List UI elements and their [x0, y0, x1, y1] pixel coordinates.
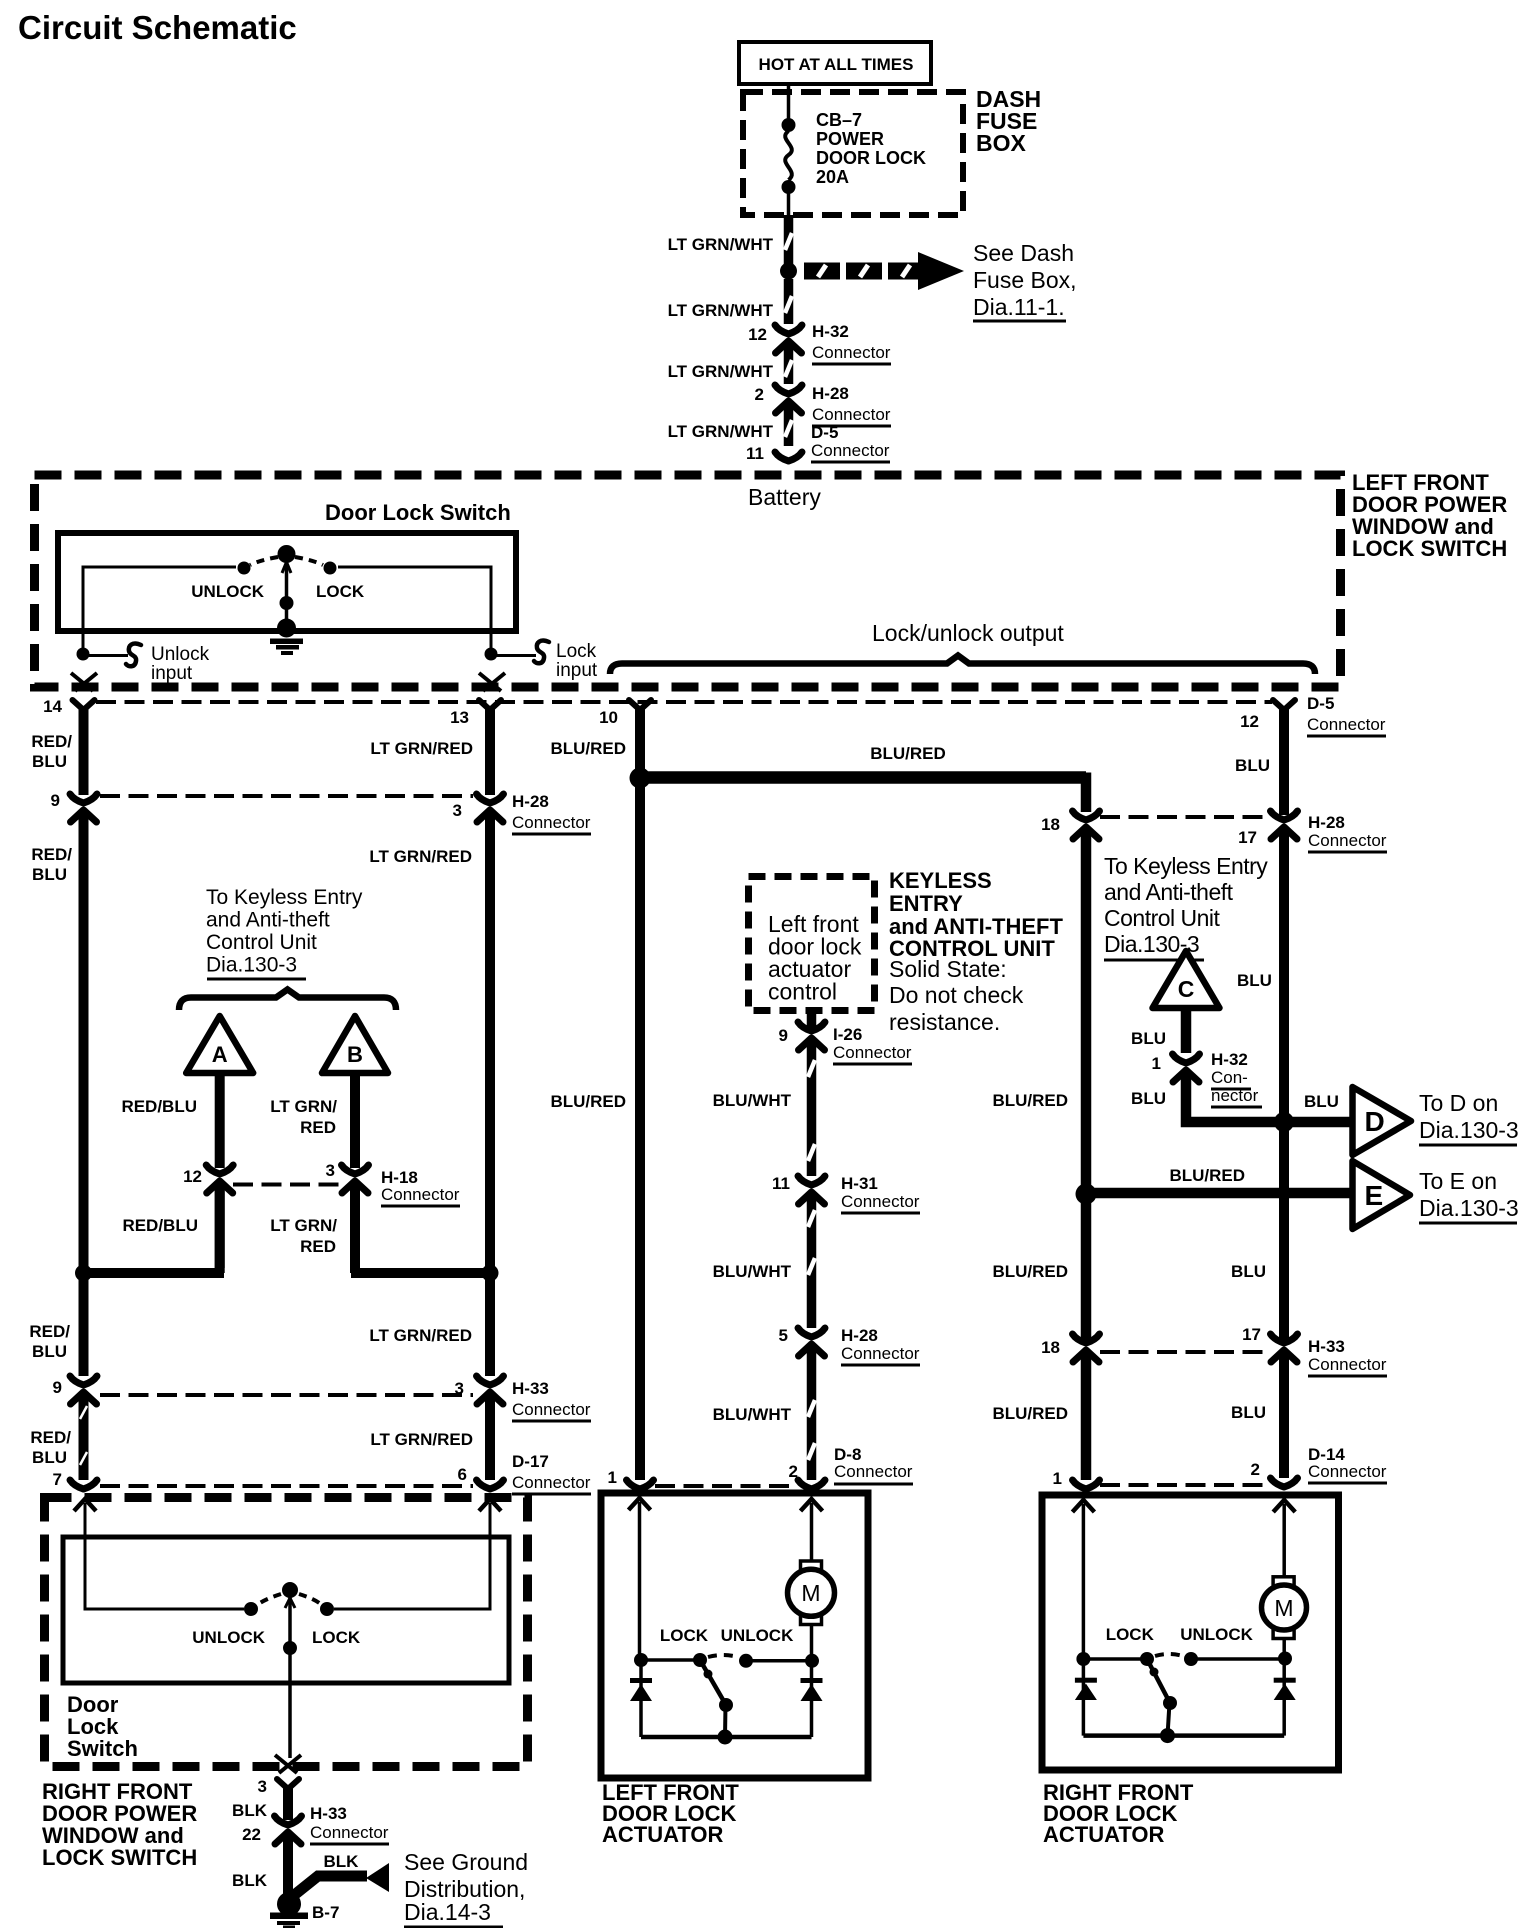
- switch actuating arrow (bottom): [285, 1598, 295, 1608]
- svg-text:18: 18: [1041, 815, 1060, 834]
- svg-text:LOCK: LOCK: [316, 582, 365, 601]
- component box RIGHT FRONT DOOR LOCK ACTUATOR: [1042, 1495, 1339, 1770]
- component box LEFT FRONT DOOR POWER WINDOW and LOCK SWITCH (dashed): [35, 475, 1341, 687]
- inner box right front door lock switch: [63, 1537, 509, 1683]
- wire BLK branch to ground distribution arrow: [293, 1876, 367, 1896]
- svg-text:and Anti-theft: and Anti-theft: [1104, 879, 1234, 905]
- svg-text:1: 1: [608, 1468, 617, 1487]
- svg-text:H-32: H-32: [1211, 1050, 1248, 1069]
- svg-text:11: 11: [746, 444, 764, 463]
- wire BLU H-32 down and right to junction: [1186, 1077, 1284, 1122]
- svg-text:Do not check: Do not check: [889, 982, 1024, 1008]
- arrow lock input to pin 13: [479, 673, 505, 691]
- svg-text:3: 3: [455, 1379, 464, 1398]
- svg-text:C: C: [1178, 976, 1195, 1002]
- wire RED/BLU triangle A to H-18: [215, 1076, 225, 1168]
- arrow to See Ground Distribution: [366, 1863, 389, 1892]
- svg-text:To Keyless Entry: To Keyless Entry: [1104, 853, 1268, 879]
- svg-text:Unlock: Unlock: [151, 644, 210, 665]
- svg-text:H-33: H-33: [1308, 1337, 1345, 1356]
- diode right (right actuator): [1282, 1659, 1286, 1736]
- svg-text:Door Lock Switch: Door Lock Switch: [325, 500, 511, 525]
- svg-text:BLU/WHT: BLU/WHT: [713, 1405, 792, 1424]
- svg-text:LT GRN/WHT: LT GRN/WHT: [668, 362, 774, 381]
- svg-text:BLU/RED: BLU/RED: [992, 1091, 1068, 1110]
- circuit breaker CB-7 20A: [782, 118, 796, 132]
- wire LT GRN/WHT fuse box to junction: [784, 215, 794, 266]
- svg-text:13: 13: [450, 708, 469, 727]
- svg-text:LOCK SWITCH: LOCK SWITCH: [42, 1845, 197, 1870]
- switch contact LOCK (bottom): [320, 1602, 334, 1616]
- wire actuator pin1 to lock contact: [638, 1502, 642, 1660]
- arrow down at bottom dashed edge: [275, 1755, 301, 1773]
- wire bottom of right actuator: [1083, 1733, 1284, 1738]
- svg-text:Connector: Connector: [833, 1043, 912, 1062]
- connector H-28 right row pins 18 / 17 (dashed): [1100, 815, 1268, 819]
- svg-text:Lock/unlock output: Lock/unlock output: [872, 620, 1064, 646]
- wire BLK H-33 to ground: [283, 1839, 293, 1894]
- wire inside door lock switch (left branch): [83, 567, 236, 654]
- switch in left actuator: [641, 1658, 700, 1662]
- svg-text:5: 5: [779, 1326, 788, 1345]
- svg-text:ENTRY: ENTRY: [889, 891, 963, 916]
- motor M left actuator: [801, 1561, 822, 1573]
- svg-text:Connector: Connector: [812, 405, 891, 424]
- svg-text:H-33: H-33: [310, 1804, 347, 1823]
- ground symbol inside door lock switch: [277, 619, 296, 638]
- svg-text:Circuit Schematic: Circuit Schematic: [18, 9, 297, 46]
- svg-text:B-7: B-7: [312, 1903, 339, 1922]
- dash fuse box outline: [743, 92, 963, 215]
- svg-text:BLU: BLU: [1131, 1089, 1166, 1108]
- wire BLU junction to H-33 pin 17: [1279, 1122, 1289, 1340]
- junction node wire1 / triangle A wire: [75, 1265, 92, 1282]
- svg-text:BLK: BLK: [232, 1871, 268, 1890]
- connector line D-8 row (dashed): [655, 1484, 795, 1488]
- wire RED/BLU H-18 to junction with wire 1: [215, 1188, 225, 1268]
- svg-text:M: M: [801, 1580, 820, 1606]
- svg-text:11: 11: [772, 1174, 790, 1193]
- svg-text:Solid State:: Solid State:: [889, 956, 1007, 982]
- connector H-18 row pins 12 / 3 (dashed): [233, 1183, 342, 1187]
- svg-text:DOOR LOCK: DOOR LOCK: [816, 148, 926, 168]
- wire BLU/RED pin 10 to junction: [635, 706, 645, 770]
- svg-text:9: 9: [51, 791, 60, 810]
- svg-text:LT GRN/: LT GRN/: [270, 1216, 337, 1235]
- switch throw arcs (bottom, dashed): [257, 1594, 281, 1605]
- node unlock input branch: [77, 648, 90, 661]
- svg-text:KEYLESS: KEYLESS: [889, 868, 992, 893]
- off-page connector triangle C: [1153, 951, 1220, 1008]
- svg-text:Control Unit: Control Unit: [206, 931, 317, 954]
- svg-text:BLK: BLK: [324, 1852, 360, 1871]
- svg-text:LT GRN/WHT: LT GRN/WHT: [668, 235, 774, 254]
- svg-text:BLU: BLU: [32, 865, 67, 884]
- diode right (unlock side): [810, 1660, 814, 1737]
- svg-text:M: M: [1274, 1595, 1293, 1621]
- svg-text:BLU: BLU: [1304, 1092, 1339, 1111]
- svg-text:BLU/RED: BLU/RED: [870, 744, 946, 763]
- wire LT GRN/RED triangle B to H-18: [350, 1076, 360, 1168]
- svg-text:nector: nector: [1211, 1086, 1259, 1105]
- svg-text:BLU: BLU: [32, 1448, 67, 1467]
- arrow into switch (right): [479, 1499, 501, 1511]
- svg-text:UNLOCK: UNLOCK: [1180, 1625, 1253, 1644]
- svg-text:E: E: [1365, 1180, 1384, 1211]
- wire LT GRN/WHT junction to H-32: [784, 279, 794, 324]
- wire from HOT AT ALL TIMES into fuse box: [787, 84, 791, 120]
- svg-text:1: 1: [1152, 1054, 1161, 1073]
- switch common pivot node (bottom): [282, 1582, 298, 1598]
- svg-text:Dia.130-3: Dia.130-3: [1419, 1195, 1519, 1221]
- connector H-28 keyless pin 5: [798, 1328, 825, 1337]
- symbol S lock input: [534, 641, 549, 664]
- wire inside door lock switch (right branch): [338, 567, 491, 654]
- svg-text:To D on: To D on: [1419, 1090, 1498, 1116]
- node lock input branch: [485, 648, 498, 661]
- svg-text:UNLOCK: UNLOCK: [721, 1626, 794, 1645]
- svg-text:See Dash: See Dash: [973, 240, 1074, 266]
- svg-text:CB–7: CB–7: [816, 110, 862, 130]
- svg-text:RED: RED: [300, 1237, 336, 1256]
- svg-text:H-28: H-28: [512, 792, 549, 811]
- svg-text:18: 18: [1041, 1338, 1060, 1357]
- connector pin 13 wire top: [479, 700, 501, 710]
- svg-text:D-5: D-5: [811, 423, 838, 442]
- svg-text:H-28: H-28: [1308, 813, 1345, 832]
- arrow into actuator pin 1: [629, 1498, 651, 1510]
- connector D-14 gull wire3b pin 1: [1073, 1480, 1100, 1489]
- svg-text:Connector: Connector: [310, 1823, 389, 1842]
- svg-text:Connector: Connector: [381, 1185, 460, 1204]
- svg-text:LT GRN/WHT: LT GRN/WHT: [668, 301, 774, 320]
- svg-text:7: 7: [53, 1470, 62, 1489]
- svg-text:LT GRN/RED: LT GRN/RED: [369, 847, 472, 866]
- svg-text:Dia.14-3: Dia.14-3: [404, 1899, 491, 1925]
- svg-text:17: 17: [1242, 1325, 1261, 1344]
- connector H-28 left row pin 9 / pin 3 (dashed): [100, 794, 473, 798]
- connector line D-5 (dashed) pins 14 13 10 12: [96, 700, 1272, 704]
- svg-text:Connector: Connector: [1308, 1355, 1387, 1374]
- svg-text:Dia.130-3: Dia.130-3: [1419, 1117, 1519, 1143]
- svg-text:RED/: RED/: [31, 732, 72, 751]
- switch contact UNLOCK: [238, 562, 251, 575]
- svg-text:See Ground: See Ground: [404, 1849, 528, 1875]
- svg-text:H-33: H-33: [512, 1379, 549, 1398]
- junction node wire2 / triangle B wire: [482, 1265, 499, 1282]
- svg-text:To E on: To E on: [1419, 1168, 1497, 1194]
- wire motor to unlock contact (right): [1282, 1639, 1286, 1660]
- wire BLU/RED junction to triangle E: [1086, 1188, 1352, 1199]
- svg-text:Connector: Connector: [512, 813, 591, 832]
- svg-text:2: 2: [1251, 1460, 1260, 1479]
- svg-text:Connector: Connector: [811, 441, 890, 460]
- svg-text:B: B: [347, 1042, 363, 1067]
- svg-text:10: 10: [599, 708, 618, 727]
- svg-text:BLU: BLU: [1235, 756, 1270, 775]
- wire LT GRN/RED pin13 to H-28: [485, 706, 495, 795]
- connector H-33 left row pins 9 / 3 (dashed): [100, 1393, 473, 1397]
- svg-text:RED/: RED/: [31, 845, 72, 864]
- svg-text:BLU: BLU: [1237, 971, 1272, 990]
- svg-text:H-31: H-31: [841, 1174, 878, 1193]
- junction node BLU/RED branch: [630, 768, 651, 789]
- svg-text:LOCK SWITCH: LOCK SWITCH: [1352, 536, 1507, 561]
- svg-text:RED/BLU: RED/BLU: [122, 1216, 198, 1235]
- svg-text:Battery: Battery: [748, 484, 821, 510]
- svg-text:H-28: H-28: [812, 384, 849, 403]
- off-page connector triangle A: [186, 1016, 253, 1073]
- junction node E branch: [1076, 1184, 1097, 1205]
- svg-text:2: 2: [789, 1462, 798, 1481]
- wire BLU/RED junction down to H-33 pin 18: [1081, 1194, 1092, 1340]
- wire BLU/RED branch to right (horizontal): [640, 771, 1086, 784]
- wire RED/BLU H-33 to D-17 pin 7: [79, 1399, 89, 1480]
- wire BLU/RED H-28 pin18 down to junction E: [1081, 834, 1092, 1196]
- wire BLU/RED branch down to H-28 pin 18: [1081, 773, 1092, 813]
- svg-text:LT GRN/RED: LT GRN/RED: [370, 739, 473, 758]
- wire right branch of bottom switch: [334, 1503, 490, 1609]
- wire RED/BLU H-28 to junction: [79, 817, 89, 1273]
- wire keyless box to I-26: [807, 1010, 817, 1028]
- svg-text:22: 22: [242, 1825, 261, 1844]
- arrow into actuator pin 2: [801, 1499, 823, 1511]
- svg-text:UNLOCK: UNLOCK: [192, 1628, 265, 1647]
- svg-text:UNLOCK: UNLOCK: [191, 582, 264, 601]
- arrow into right actuator pin 2: [1273, 1500, 1295, 1512]
- svg-text:BLK: BLK: [232, 1801, 268, 1820]
- wire BLU junction to triangle D: [1284, 1117, 1352, 1128]
- svg-text:BLU/RED: BLU/RED: [992, 1404, 1068, 1423]
- switch arm right actuator: [1147, 1659, 1170, 1703]
- wire LT GRN/RED junction to H-33: [485, 1273, 495, 1376]
- svg-text:LT GRN/RED: LT GRN/RED: [370, 1430, 473, 1449]
- arrow into switch (left): [74, 1499, 96, 1511]
- switch throw arcs (dashed): [250, 557, 278, 565]
- svg-text:12: 12: [1240, 712, 1259, 731]
- svg-text:20A: 20A: [816, 167, 849, 187]
- svg-text:Connector: Connector: [841, 1192, 920, 1211]
- svg-text:input: input: [151, 663, 193, 684]
- connector H-28 pin 2: [775, 385, 802, 394]
- wire LT GRN/RED H-18 to junction with wire 2: [350, 1188, 360, 1273]
- svg-text:BLU: BLU: [32, 752, 67, 771]
- switch common pivot node: [278, 545, 296, 563]
- connector H-31 pin 11: [798, 1176, 825, 1185]
- svg-text:BLU/RED: BLU/RED: [550, 1092, 626, 1111]
- off-page connector triangle D: [1353, 1087, 1412, 1155]
- wire BLU pin 12 to H-28 pin 17: [1279, 706, 1289, 815]
- svg-text:BLU: BLU: [1131, 1029, 1166, 1048]
- svg-text:D: D: [1365, 1106, 1385, 1137]
- wire actuator pin2 to motor: [810, 1503, 814, 1561]
- svg-text:Connector: Connector: [1308, 831, 1387, 850]
- svg-text:control: control: [768, 979, 837, 1005]
- svg-text:input: input: [556, 660, 598, 681]
- arrow unlock input to pin 14: [71, 673, 97, 691]
- svg-text:12: 12: [183, 1167, 202, 1186]
- svg-text:I-26: I-26: [833, 1025, 862, 1044]
- svg-text:1: 1: [1053, 1469, 1062, 1488]
- wire switch common down to pin 3: [288, 1648, 292, 1758]
- svg-text:A: A: [212, 1042, 228, 1067]
- wire BLU H-28 to C/D junction: [1279, 834, 1289, 1122]
- switch contact UNLOCK (bottom): [244, 1602, 258, 1616]
- svg-text:Connector: Connector: [834, 1462, 913, 1481]
- connector H-32 pin 1 (right): [1173, 1054, 1200, 1063]
- svg-text:Lock: Lock: [556, 641, 597, 662]
- arrow into right actuator pin 1: [1072, 1500, 1094, 1512]
- wire LT GRN/RED H-33 to D-17 pin 6: [485, 1399, 495, 1480]
- connector pin 12 wire top: [1273, 700, 1295, 710]
- svg-text:3: 3: [258, 1777, 267, 1796]
- svg-text:12: 12: [748, 325, 767, 344]
- svg-text:LT GRN/: LT GRN/: [270, 1097, 337, 1116]
- wire BLU/WHT I-26 to H-31: [807, 1045, 817, 1176]
- svg-text:and Anti-theft: and Anti-theft: [206, 909, 330, 932]
- svg-text:POWER: POWER: [816, 129, 884, 149]
- svg-text:Fuse Box,: Fuse Box,: [973, 267, 1077, 293]
- svg-text:Connector: Connector: [1308, 1462, 1387, 1481]
- svg-text:LOCK: LOCK: [660, 1626, 709, 1645]
- symbol S unlock input: [126, 644, 141, 667]
- power source box HOT AT ALL TIMES: [739, 42, 931, 84]
- wire LT GRN/WHT H-32 to H-28: [784, 348, 794, 384]
- svg-text:D-17: D-17: [512, 1452, 549, 1471]
- connector H-32 pin 12: [775, 325, 802, 334]
- connector D-8 pin 2: [798, 1480, 825, 1489]
- svg-text:LOCK: LOCK: [312, 1628, 361, 1647]
- component box RIGHT FRONT DOOR POWER WINDOW and LOCK SWITCH (dashed): [45, 1498, 528, 1767]
- wire BLU/RED junction down to left actuator pin 1: [635, 778, 645, 1480]
- svg-text:BLU/WHT: BLU/WHT: [713, 1091, 792, 1110]
- connector pin 3 wire top (below bottom switch): [277, 1779, 299, 1789]
- component box LEFT FRONT DOOR LOCK ACTUATOR: [601, 1493, 868, 1778]
- switch in right actuator: [1083, 1657, 1147, 1661]
- svg-text:Connector: Connector: [841, 1344, 920, 1363]
- svg-text:H-28: H-28: [841, 1326, 878, 1345]
- svg-text:H-32: H-32: [812, 322, 849, 341]
- wire BLU triangle C to H-32: [1181, 1011, 1192, 1053]
- wire BLU/WHT H-28 to D-8: [807, 1351, 817, 1480]
- junction node to dash fuse box arrow: [780, 263, 797, 280]
- svg-text:Dia.11-1.: Dia.11-1.: [973, 294, 1065, 320]
- wire BLU H-33 to right actuator pin 2: [1279, 1357, 1289, 1478]
- svg-text:BLU: BLU: [32, 1342, 67, 1361]
- wire LT GRN/RED H-28 to junction: [485, 817, 495, 1273]
- svg-text:ACTUATOR: ACTUATOR: [1043, 1822, 1165, 1847]
- connector I-26 pin 9: [798, 1022, 825, 1031]
- switch contact LOCK: [324, 562, 337, 575]
- motor M right actuator: [1273, 1577, 1294, 1589]
- svg-text:RED: RED: [300, 1118, 336, 1137]
- svg-text:Connector: Connector: [812, 343, 891, 362]
- connector H-33 right row pins 18 / 17 (dashed): [1100, 1350, 1268, 1354]
- svg-text:Switch: Switch: [67, 1736, 138, 1761]
- svg-text:6: 6: [458, 1465, 467, 1484]
- connector D-14 gull wire4 pin 2: [1271, 1478, 1298, 1487]
- wire motor to unlock contact: [810, 1625, 814, 1660]
- connector pin 10 wire top: [629, 700, 651, 710]
- svg-text:9: 9: [53, 1378, 62, 1397]
- svg-text:BLU/RED: BLU/RED: [550, 739, 626, 758]
- svg-text:Con-: Con-: [1211, 1068, 1248, 1087]
- wire left branch of bottom switch: [85, 1503, 244, 1609]
- component box KEYLESS ENTRY and ANTI-THEFT CONTROL UNIT (dashed): [749, 877, 875, 1011]
- connector D-17 row pins 7 / 6 (dashed): [100, 1484, 473, 1488]
- connector H-33 bottom pins 3 / 22: [275, 1816, 302, 1825]
- ground symbol B-7: [277, 1892, 301, 1916]
- junction node BLU to D: [1274, 1112, 1294, 1132]
- svg-text:BLU/RED: BLU/RED: [1169, 1166, 1245, 1185]
- svg-text:BLU: BLU: [1231, 1403, 1266, 1422]
- wire bottom of left actuator: [641, 1735, 812, 1740]
- connector D-8 gull at wire3 bottom pin 1: [627, 1480, 654, 1489]
- brace over triangles A and B: [179, 990, 396, 1011]
- svg-text:9: 9: [779, 1026, 788, 1045]
- svg-text:Dia.130-3: Dia.130-3: [206, 954, 297, 977]
- wire right actuator pin1 to lock contact: [1082, 1504, 1086, 1659]
- off-page connector triangle E: [1353, 1161, 1411, 1229]
- svg-text:Control Unit: Control Unit: [1104, 905, 1221, 931]
- diode left (right actuator): [1082, 1659, 1086, 1736]
- dashed arrow to See Dash Fuse Box: [804, 252, 964, 290]
- switch arm left actuator: [700, 1660, 726, 1705]
- svg-text:LT GRN/RED: LT GRN/RED: [369, 1326, 472, 1345]
- brace lock/unlock output group: [610, 656, 1315, 675]
- wire BLU/RED H-33 to right actuator pin 1: [1081, 1357, 1092, 1480]
- svg-text:ACTUATOR: ACTUATOR: [602, 1822, 724, 1847]
- svg-text:BOX: BOX: [976, 130, 1027, 156]
- svg-text:HOT AT ALL TIMES: HOT AT ALL TIMES: [759, 55, 914, 74]
- wire LT GRN/WHT H-28 to D-5: [784, 408, 794, 446]
- svg-text:LOCK: LOCK: [1106, 1625, 1155, 1644]
- svg-text:RED/: RED/: [30, 1428, 71, 1447]
- svg-text:resistance.: resistance.: [889, 1009, 1000, 1035]
- svg-text:LT GRN/WHT: LT GRN/WHT: [668, 422, 774, 441]
- svg-text:Connector: Connector: [1307, 715, 1386, 734]
- wire BLK pin 3 to H-33: [283, 1785, 293, 1820]
- wire RED/BLU junction to H-33: [79, 1273, 89, 1376]
- svg-text:Connector: Connector: [512, 1473, 591, 1492]
- svg-text:14: 14: [43, 697, 62, 716]
- wire RED/BLU pin14 to H-28: [79, 706, 89, 795]
- svg-text:17: 17: [1238, 828, 1257, 847]
- svg-text:D-5: D-5: [1307, 694, 1334, 713]
- off-page connector triangle B: [322, 1016, 388, 1073]
- svg-text:RED/BLU: RED/BLU: [121, 1097, 197, 1116]
- diode left (lock side): [639, 1660, 643, 1737]
- svg-text:BLU: BLU: [1231, 1262, 1266, 1281]
- svg-text:RED/: RED/: [29, 1322, 70, 1341]
- svg-text:To Keyless Entry: To Keyless Entry: [206, 886, 363, 909]
- connector D-14 label and row (dashed): [1100, 1483, 1268, 1487]
- svg-text:Connector: Connector: [512, 1400, 591, 1419]
- svg-text:BLU/RED: BLU/RED: [992, 1262, 1068, 1281]
- svg-text:3: 3: [326, 1161, 335, 1180]
- svg-text:BLU/WHT: BLU/WHT: [713, 1262, 792, 1281]
- svg-text:3: 3: [453, 801, 462, 820]
- connector pin 14 wire top: [73, 700, 95, 710]
- svg-text:2: 2: [755, 385, 764, 404]
- wire right actuator pin2 to motor: [1282, 1504, 1286, 1577]
- wire BLU/WHT H-31 to H-28: [807, 1199, 817, 1328]
- switch actuating arrow to ground: [282, 562, 291, 573]
